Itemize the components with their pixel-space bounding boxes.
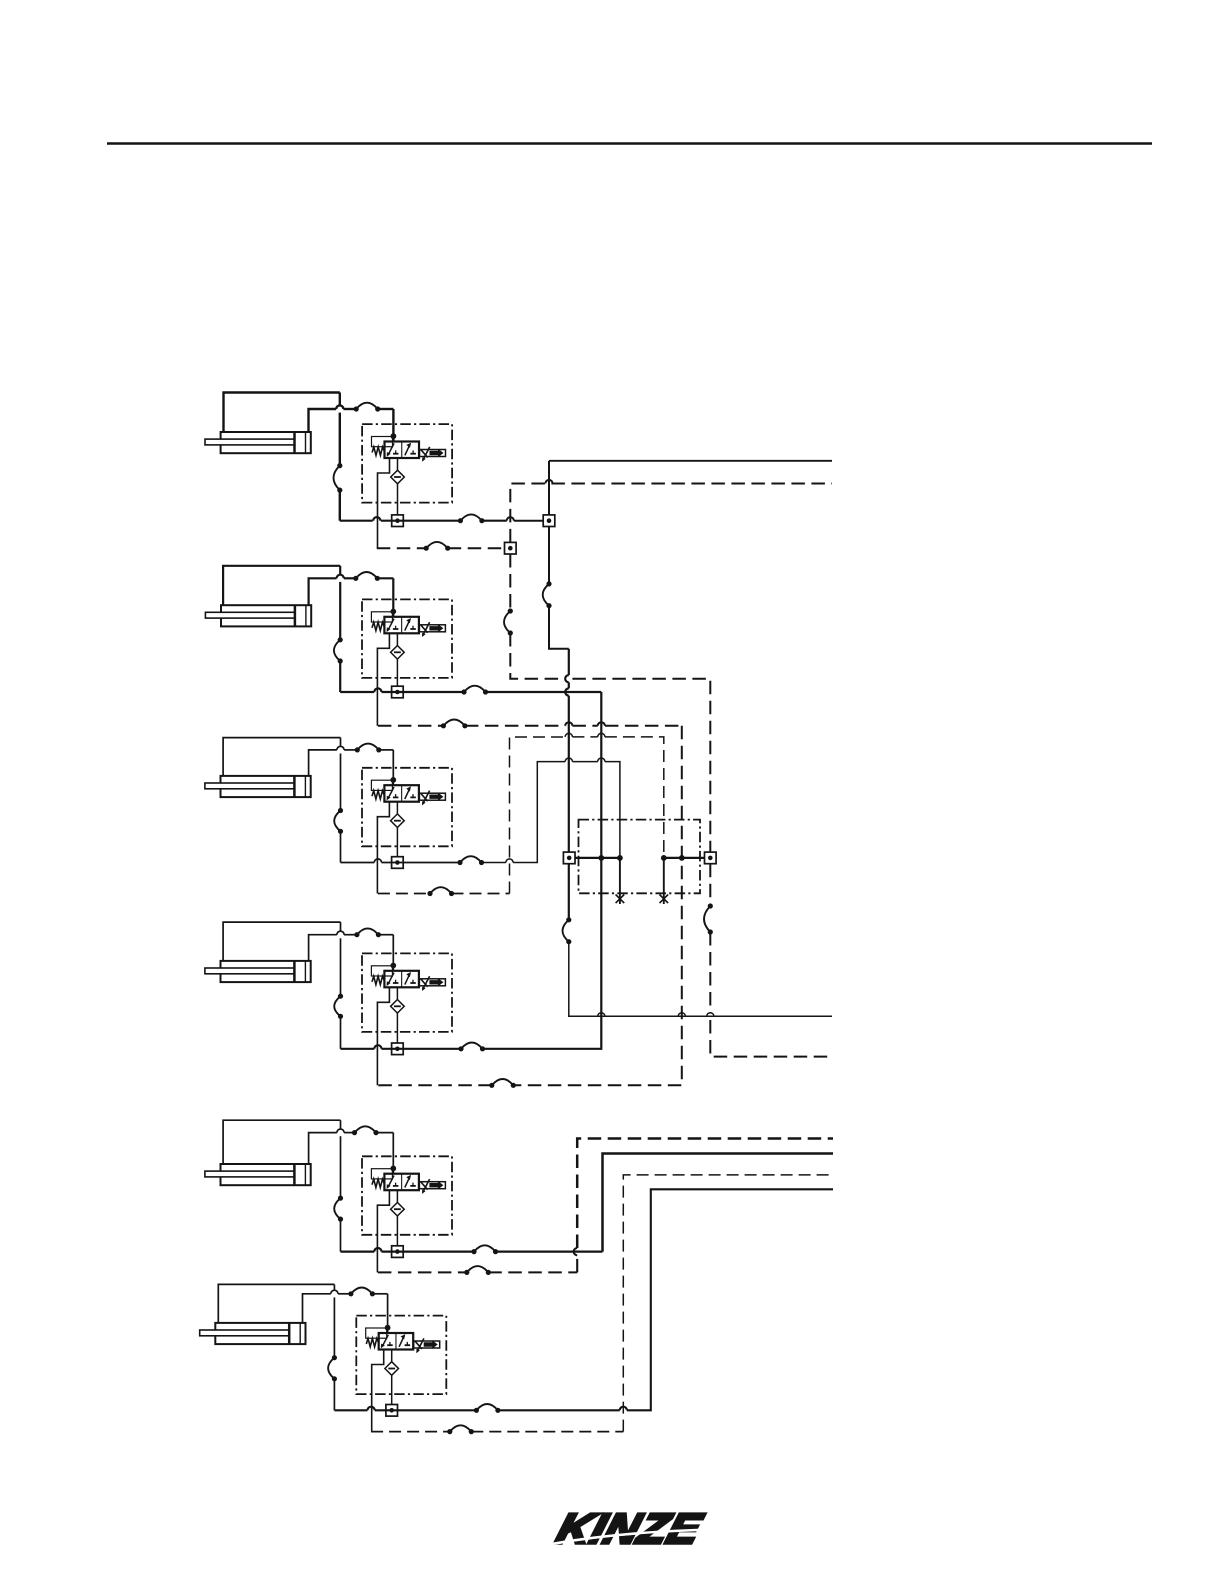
hose flex on pressure line 6: [474, 1404, 501, 1413]
wire riser from blind-end circuit down to pressure hose 3: [340, 738, 342, 863]
quick coupler on return riser (510.3,548.2): [505, 542, 517, 554]
quick coupler below valve 1: [392, 515, 404, 527]
wire cylinder 5 rod-end port: [309, 1129, 394, 1174]
wire riser from blind-end circuit down to pressure hose 2: [339, 566, 341, 692]
bump where y483.5 crosses x549: [545, 480, 552, 484]
orifice/filter diamond valve 3: [391, 802, 405, 857]
wire cylinder 1 rod-end port: [309, 405, 394, 441]
wire riser x549 up to output, down to junction step: [549, 461, 569, 649]
cylinder CYL3: [205, 776, 311, 797]
plugged stub + X at divider port x619.9: [616, 858, 625, 904]
pressure hose assembly 3 (thin solid) riser to divider: [341, 758, 620, 863]
bumps where y736.9 crosses x568.8 and x601.3: [565, 733, 605, 737]
hose flex on return line 6: [447, 1425, 474, 1434]
pressure hose assembly 1 (solid): [340, 517, 543, 521]
wire riser x568.8 down to flow divider: [565, 649, 832, 1017]
return hose assembly 6 (thin dashed) riser x623.3 to output y1174.9: [371, 1175, 833, 1432]
orifice/filter diamond valve 5: [391, 1190, 405, 1246]
top rule: [107, 142, 1152, 145]
hose (flex section) on riser 2: [334, 637, 343, 663]
pressure hose assembly 5 (solid) riser to output y1153.5: [341, 1154, 834, 1252]
pilot junction dot valve 3: [390, 777, 396, 783]
valve 1 tank port elbow down to return hose: [378, 458, 390, 548]
valve enclosure (dash-dot) V6: [356, 1316, 446, 1395]
return hose assembly 1 (dashed) to coupler and risers: [377, 547, 505, 549]
return hose assembly 2 (dashed) riser x681.8 to assembly 4: [378, 722, 682, 1085]
pilot junction dot valve 5: [390, 1166, 396, 1172]
quick coupler below valve 2: [392, 686, 404, 698]
flow divider enclosure (dash-dot): [579, 820, 701, 894]
bumps where y1016.3 crosses x601.3 x681.8 x710.3: [598, 1013, 714, 1017]
hose flex on return line 4: [489, 1079, 516, 1088]
bump where riser x577.2 crosses y1251.6: [574, 1248, 578, 1255]
directional valve V1: [372, 437, 446, 462]
junction dot divider port x619.9: [617, 855, 623, 861]
directional valve V3: [371, 780, 445, 805]
valve 2 tank port elbow down to return hose: [377, 633, 389, 726]
wire cylinder 2 rod-end port: [309, 575, 394, 617]
directional valve V5: [371, 1169, 445, 1194]
hose flex on dashed riser x510.3: [504, 608, 513, 635]
cylinder CYL6: [200, 1323, 306, 1344]
plugged stub + X at divider port x663.8: [660, 858, 669, 904]
wire riser from blind-end circuit down to pressure hose 1: [339, 393, 341, 521]
wire riser from blind-end circuit down to pressure hose 4: [340, 922, 342, 1049]
valve 3 tank port elbow down to return hose: [377, 802, 389, 894]
hose flex on pressure line 5: [471, 1245, 498, 1254]
wire cylinder 6 rod-end port: [303, 1290, 388, 1333]
quick coupler divider left (568.8,857.9): [563, 852, 575, 864]
pilot junction dot valve 4: [390, 963, 396, 969]
cylinder CYL1: [205, 432, 311, 453]
dashed riser x710.3 below divider to output y1056.6: [710, 864, 833, 1057]
pilot junction dot valve 6: [385, 1325, 391, 1331]
hose (flex section) on rod-end line 5: [352, 1126, 379, 1135]
wire cylinder 4 blind-end port: [223, 922, 340, 961]
pilot junction dot valve 2: [390, 609, 396, 615]
dashed riser x510.3 up to output y483.5: [510, 484, 832, 543]
quick coupler below valve 6: [386, 1405, 398, 1417]
quick coupler below valve 4: [392, 1043, 404, 1055]
dashed riser x510.3 down to y678.7 and across to x710.3: [510, 554, 710, 852]
wire cylinder 2 blind-end port: [223, 566, 340, 605]
return hose assembly 5 (dashed) riser x577.2 to output y1138.5: [378, 1139, 833, 1273]
hose flex on pressure line 3: [457, 856, 484, 865]
quick coupler below valve 3: [392, 857, 404, 869]
hose (flex section) on riser 4: [334, 994, 343, 1019]
junction dot divider/pressure riser: [598, 855, 604, 861]
cylinder CYL4: [205, 961, 311, 982]
pilot junction dot valve 1: [391, 433, 397, 439]
wire riser from blind-end circuit down to pressure hose 5: [340, 1120, 342, 1251]
wire cylinder 6 blind-end port: [218, 1284, 334, 1323]
quick coupler divider right (710.3,857.9): [705, 852, 717, 864]
hose (flex section) on riser 6: [328, 1355, 337, 1381]
quick coupler below valve 5: [392, 1246, 404, 1258]
flow divider right port gallery line: [662, 857, 704, 859]
pressure hose assembly 6 (solid) riser to output y1189.3: [334, 1189, 833, 1410]
valve 4 tank port elbow down to return hose: [377, 987, 389, 1085]
wire cylinder 5 blind-end port: [223, 1120, 340, 1164]
orifice/filter diamond valve 6: [385, 1350, 399, 1405]
hose (flex section) on rod-end line 4: [354, 928, 381, 937]
hose (flex section) on rod-end line 3: [355, 744, 382, 753]
valve enclosure (dash-dot) V5: [362, 1156, 452, 1235]
wire cylinder 4 rod-end port: [309, 931, 394, 971]
hose flex on pressure line 4: [458, 1043, 485, 1052]
svg-text:KINZE: KINZE: [551, 1505, 708, 1553]
valve enclosure (dash-dot) V1: [362, 424, 452, 503]
hose (flex section) on rod-end line 6: [348, 1288, 375, 1297]
valve 5 tank port elbow down to return hose: [377, 1190, 389, 1272]
hose (flex section) on rod-end line 2: [353, 572, 380, 581]
cylinder CYL2: [205, 605, 311, 626]
KINZE logo: [551, 1505, 719, 1553]
orifice/filter diamond valve 2: [391, 633, 405, 686]
valve 6 tank port elbow down to return hose: [372, 1350, 384, 1432]
hose flex on return line 2: [441, 720, 468, 729]
cylinder CYL5: [205, 1164, 311, 1185]
hose (flex section) on riser 5: [334, 1196, 343, 1222]
orifice/filter diamond valve 1: [391, 458, 405, 515]
wire cylinder 1 blind-end port: [224, 393, 340, 433]
directional valve V2: [371, 612, 445, 637]
wire cylinder 3 blind-end port: [223, 738, 340, 776]
hose (flex section) on riser 3: [334, 808, 343, 834]
junction dot divider/return riser x681.8: [679, 855, 685, 861]
hose flex on riser x568.8 below divider: [563, 917, 572, 944]
wire riser from blind-end circuit down to pressure hose 6: [333, 1284, 335, 1410]
output line y460.8 (solid): [549, 460, 832, 462]
hose flex on return line 3: [427, 887, 454, 896]
valve enclosure (dash-dot) V2: [362, 599, 452, 678]
hose flex on return line 5: [464, 1266, 491, 1275]
hose flex on dashed riser x710.3: [704, 903, 713, 934]
valve enclosure (dash-dot) V3: [362, 768, 452, 847]
directional valve V6: [366, 1328, 440, 1353]
wire cylinder 3 rod-end port: [309, 746, 394, 785]
hose (flex section) on riser 1: [334, 463, 343, 493]
flow divider left port gallery line: [575, 857, 622, 859]
hose flex on riser x549: [543, 581, 552, 608]
hose flex on pressure line 2: [461, 686, 488, 695]
valve enclosure (dash-dot) V4: [362, 953, 452, 1032]
pressure hose assembly 2 + riser x601.3 to assembly 4 (solid): [340, 688, 601, 1048]
hose flex on return line 1: [424, 542, 451, 551]
orifice/filter diamond valve 4: [391, 987, 405, 1043]
hose flex on pressure line 1: [458, 514, 485, 523]
hose (flex section) on rod-end line 1: [354, 403, 381, 412]
directional valve V4: [371, 966, 445, 991]
quick coupler on riser (549,520.7): [543, 515, 555, 527]
return hose assembly 3 (thin dashed) riser x509.5 and x663.8: [378, 737, 664, 894]
junction dot divider port x663.8: [661, 855, 667, 861]
